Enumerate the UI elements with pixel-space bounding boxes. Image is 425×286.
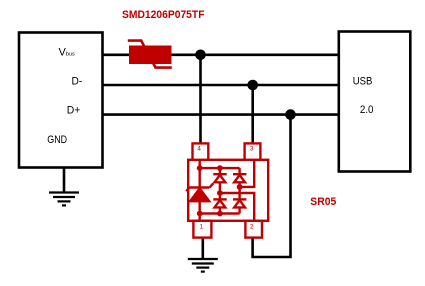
svg-text:SMD1206P075TF: SMD1206P075TF (122, 9, 205, 21)
svg-text:USB: USB (353, 76, 373, 88)
svg-text:3: 3 (250, 146, 254, 153)
svg-text:GND: GND (47, 134, 67, 146)
svg-text:4: 4 (197, 146, 201, 153)
svg-text:SR05: SR05 (310, 196, 336, 208)
svg-text:2: 2 (250, 223, 254, 230)
svg-text:D+: D+ (67, 104, 81, 116)
svg-text:2.0: 2.0 (360, 104, 374, 116)
svg-text:D-: D- (72, 75, 83, 87)
svg-text:1: 1 (200, 223, 204, 230)
